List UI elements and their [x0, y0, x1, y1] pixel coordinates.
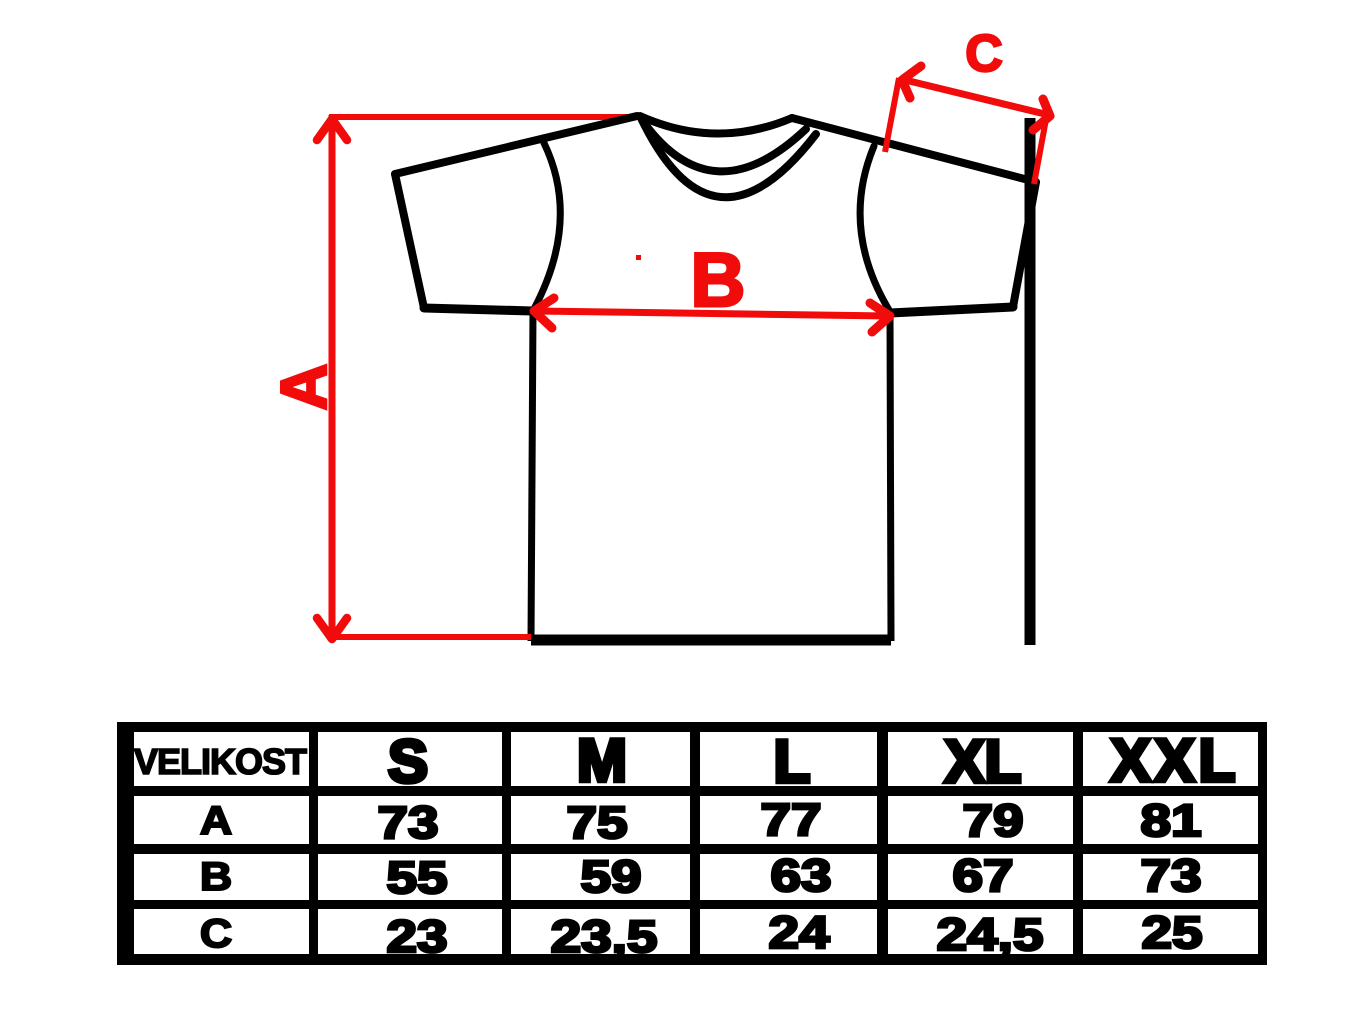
t-shirt back neckline shallow arc: [640, 116, 792, 134]
size table black frame: [117, 722, 1267, 965]
dimension B left arrowhead: [534, 298, 554, 328]
table cell r2c4: [700, 796, 877, 844]
svg-text:77: 77: [760, 795, 821, 845]
table cell r1c5: [888, 732, 1073, 786]
table cell r3c3: [511, 854, 690, 900]
svg-text:A: A: [267, 364, 340, 411]
small red dot artifact: [636, 255, 641, 260]
dimension C left arrowhead: [902, 66, 921, 98]
t-shirt bottom hem: [531, 635, 891, 646]
svg-text:VELIKOST: VELIKOST: [134, 741, 307, 782]
dimension C left extension line: [885, 78, 899, 152]
dimension B right arrowhead: [870, 303, 890, 332]
t-shirt left sleeve bottom edge: [424, 308, 533, 311]
t-shirt right shoulder line: [792, 118, 1036, 182]
svg-text:M: M: [577, 727, 627, 794]
t-shirt left sleeve outer edge: [395, 174, 424, 308]
table cell r3c2: [318, 854, 502, 900]
dimension A bottom arrowhead: [317, 618, 347, 639]
svg-text:75: 75: [566, 798, 627, 848]
svg-text:XL: XL: [945, 728, 1022, 795]
svg-text:59: 59: [580, 852, 641, 902]
t-shirt right armhole curve: [860, 146, 889, 310]
t-shirt left armhole curve: [534, 143, 560, 309]
table cell r4c3: [511, 909, 690, 954]
svg-text:C: C: [965, 25, 1003, 83]
table cell r1c3: [511, 732, 690, 786]
table cell r1c1: [134, 732, 309, 786]
table cell r3c4: [700, 854, 877, 900]
table cell r2c2: [318, 796, 502, 844]
t-shirt collar outer arc: [641, 118, 816, 197]
svg-text:23,5: 23,5: [551, 912, 658, 962]
svg-text:73: 73: [377, 798, 438, 848]
svg-text:S: S: [388, 728, 428, 795]
svg-text:63: 63: [770, 851, 831, 901]
svg-text:B: B: [200, 854, 232, 898]
table cell r4c4: [700, 909, 877, 954]
table cell r3c5: [888, 854, 1073, 900]
table cell r1c4: [700, 732, 877, 786]
dimension A vertical line: [329, 115, 336, 639]
table cell r4c5: [888, 909, 1073, 954]
svg-text:L: L: [774, 728, 811, 795]
svg-text:23: 23: [386, 912, 447, 962]
svg-text:24,5: 24,5: [937, 910, 1044, 960]
dimension A bottom extension line: [333, 634, 531, 640]
svg-text:B: B: [691, 238, 746, 323]
svg-text:A: A: [200, 798, 232, 842]
table cell r2c3: [511, 796, 690, 844]
table cell r3c1: [134, 854, 309, 900]
table cell r4c1: [134, 909, 309, 954]
t-shirt collar inner arc: [642, 120, 806, 171]
table cell r1c6: [1083, 732, 1258, 786]
svg-text:25: 25: [1141, 908, 1202, 958]
svg-text:XXL: XXL: [1111, 727, 1240, 794]
table cell r2c5: [888, 796, 1073, 844]
t-shirt right sleeve end edge: [1013, 182, 1036, 307]
svg-text:81: 81: [1140, 796, 1201, 846]
svg-text:55: 55: [386, 853, 447, 903]
table cell r4c2: [318, 909, 502, 954]
dimension A top arrowhead: [317, 119, 347, 140]
svg-text:24: 24: [768, 908, 829, 958]
dimension B arrow line: [536, 311, 889, 316]
table cell r1c2: [318, 732, 502, 786]
table cell r4c6: [1083, 909, 1258, 954]
table cell r2c1: [134, 796, 309, 844]
dimension C right arrowhead: [1033, 99, 1050, 130]
dimension C arrow line: [901, 79, 1049, 115]
t-shirt left shoulder line: [395, 116, 637, 174]
svg-text:C: C: [200, 911, 232, 955]
svg-text:79: 79: [962, 796, 1023, 846]
dimension C right extension line: [1034, 114, 1047, 184]
t-shirt right sleeve bottom edge: [890, 307, 1013, 313]
table cell r2c6: [1083, 796, 1258, 844]
table cell r3c6: [1083, 854, 1258, 900]
t-shirt right body side: [890, 313, 891, 641]
svg-text:73: 73: [1140, 851, 1201, 901]
long vertical line at right: [1025, 118, 1036, 645]
t-shirt left body side: [531, 311, 533, 641]
dimension A top extension line: [329, 114, 637, 120]
svg-text:67: 67: [952, 851, 1013, 901]
